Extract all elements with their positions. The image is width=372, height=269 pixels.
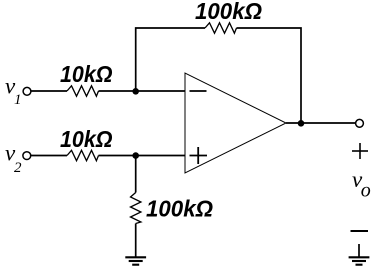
ground (left, below R4) (125, 257, 146, 264)
plus polarity mark for vo (352, 150, 368, 152)
resistor R2 10k (horizontal) (67, 150, 99, 160)
op-amp U1 (185, 73, 286, 173)
wire node B down to R4 (135, 156, 137, 193)
node A (inverting input junction) (132, 88, 139, 95)
minus polarity mark for vo (351, 230, 369, 232)
svg-text:100kΩ: 100kΩ (195, 0, 262, 24)
node B (non-inverting input junction) (132, 152, 139, 159)
wire op-amp output to vo terminal (286, 122, 355, 124)
svg-text:100kΩ: 100kΩ (146, 196, 213, 222)
resistor R3 100k (feedback, horizontal) (205, 23, 237, 33)
svg-text:10kΩ: 10kΩ (60, 126, 113, 152)
svg-text:10kΩ: 10kΩ (60, 61, 113, 87)
wire feedback left vertical (136, 28, 205, 91)
terminal vo (output port circle) (356, 119, 364, 127)
wire v2 terminal to R2 (31, 155, 67, 157)
op-amp U1 non-inverting input plus sign (190, 155, 208, 157)
wire R4 to ground (135, 224, 137, 258)
svg-text:2: 2 (14, 160, 22, 176)
svg-text:o: o (361, 180, 371, 202)
ground (right, output reference) (358, 244, 360, 257)
wire R2 to op-amp non-inverting input (99, 155, 186, 157)
svg-text:1: 1 (14, 92, 22, 108)
resistor R1 10k (horizontal) (67, 86, 99, 96)
op-amp U1 inverting input minus sign (190, 90, 207, 92)
wire feedback right vertical down to output node (237, 28, 302, 123)
node C (output junction) (298, 120, 305, 127)
terminal v2 (input port circle) (23, 152, 31, 160)
terminal v1 (input port circle) (23, 87, 31, 95)
resistor R4 100k (vertical, to ground) (131, 193, 141, 224)
wire v1 terminal to R1 (31, 90, 67, 92)
wire R1 to op-amp inverting input (99, 90, 186, 92)
